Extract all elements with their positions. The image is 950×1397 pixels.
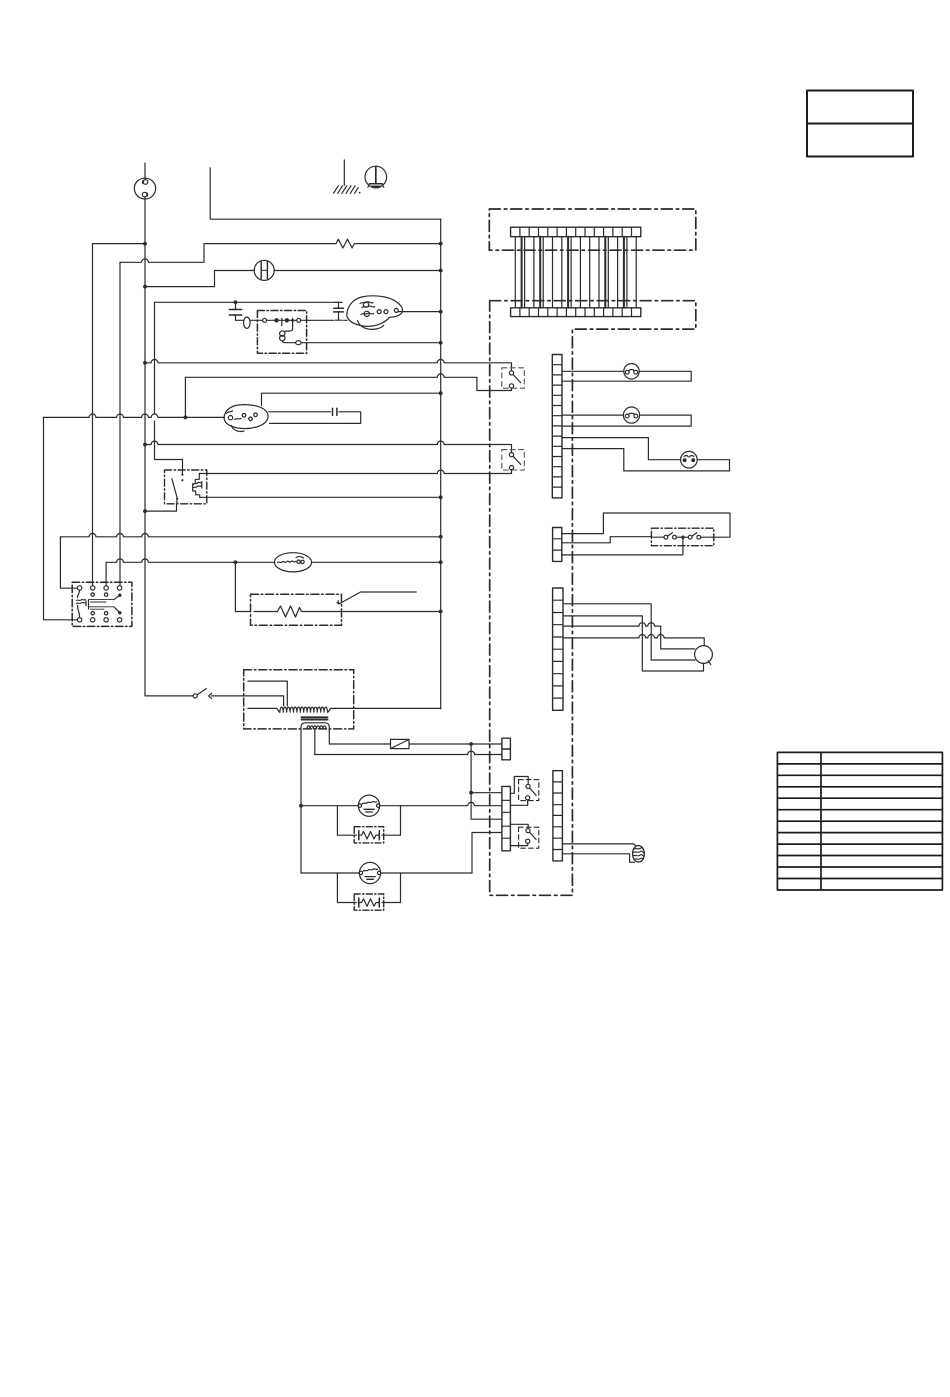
relay RY2 armature contact	[172, 470, 184, 504]
control PCB box outline (dash-dot)	[490, 301, 696, 896]
thermal protector oval	[274, 553, 311, 572]
wire protector drop x=235.4 to heater	[235, 562, 250, 611]
relay contact RY1	[502, 368, 525, 388]
transformer T1 secondary winding	[307, 726, 326, 729]
fan motor oval	[224, 405, 268, 432]
wire relay2 return y=473.5	[200, 470, 512, 474]
thermostat arrow over heater	[337, 592, 416, 604]
wire riser x=185.4 to relay1 return	[184, 377, 186, 417]
wire RY2 coil top exit stub	[198, 473, 200, 475]
wire transformer tap A lead	[248, 681, 287, 706]
wire transformer primary left lead	[248, 708, 280, 712]
wire secondary tap A drop	[300, 731, 302, 806]
wire secondary mid tap y=754.5 with hop	[315, 751, 502, 754]
transformer secondary tap leads	[301, 723, 329, 755]
relay RY coil	[280, 329, 296, 342]
node junction fan line x=185.4	[184, 416, 188, 420]
relay RY contact gap tick	[281, 318, 283, 325]
wire vertical link x=154.5	[155, 302, 183, 470]
relay contact RY2	[502, 450, 525, 470]
fuse thermal oval on filament line	[244, 317, 251, 328]
wire lower feed y=536.8 with hops	[60, 533, 440, 536]
wire sense link x=471.1	[470, 744, 472, 793]
wire motor2 resistor loop	[337, 873, 400, 903]
door interlock switch block (dash-dot)	[72, 582, 132, 626]
node junction HV cap1 top	[234, 300, 238, 304]
wire branch to left bus x=92.5	[93, 244, 146, 586]
node junction on live bus y=444.5	[143, 443, 147, 447]
wire RY2 coil bottom to right bus y=497.3	[200, 496, 441, 498]
ribbon cable top header	[511, 227, 641, 237]
wire damper relay return	[562, 537, 652, 543]
node junction protector line x=235.4	[234, 560, 238, 564]
wire door switch to transformer primary	[212, 696, 284, 706]
relay RY actuator arrow	[291, 317, 295, 329]
oven lamp L1	[624, 364, 639, 379]
wire buzzer top lead	[562, 844, 635, 846]
relay RY contact terminal	[263, 318, 267, 322]
wire fan motor top tap to bus y=393.2	[262, 393, 441, 405]
connector CN2 3pin strip	[553, 528, 562, 562]
turntable motor M1	[358, 795, 380, 816]
wire relay1 return y=377.3	[185, 374, 511, 391]
oven lamp L2	[623, 407, 639, 423]
wire stepper W1	[563, 604, 695, 660]
wire secondary right tap through fuse y=744	[329, 731, 502, 744]
ground earth symbol	[334, 160, 361, 194]
node junction tap A at motor1 line	[299, 804, 303, 808]
node junction fan top line at right bus	[439, 391, 443, 395]
transformer T1 primary winding	[280, 707, 328, 712]
relay RY moving contact	[274, 318, 278, 322]
wire main bus horizontal to door switch y=695.9	[145, 695, 193, 697]
node junction fuse line x=471.1	[469, 742, 473, 746]
damper relay contacts	[651, 533, 713, 540]
node junction protector line at right bus	[439, 560, 443, 564]
switch block terminals top row	[77, 586, 121, 590]
node junction lower feed at right bus	[439, 535, 443, 539]
node junction coil line at right bus	[439, 341, 443, 345]
transformer box (dash-dot)	[244, 670, 354, 729]
capacitor HV C1	[229, 302, 241, 320]
wire buzzer bottom lead	[562, 854, 634, 863]
wire x=43.5 left-most bus	[44, 417, 78, 619]
monitor switch SW1	[510, 777, 538, 806]
relay RY filament terminal	[297, 318, 301, 322]
wire fan motor feed y=417.4 with hops	[44, 414, 225, 417]
resistor motor1 damping	[354, 827, 384, 843]
wire live bus to RY2 box bottom	[145, 504, 177, 511]
power PCB box outline (dash-dot)	[489, 209, 696, 250]
damper relay box (dash-dot)	[651, 528, 713, 546]
wire main live bus (x=145) plug to door switch corner	[144, 197, 146, 696]
node junction on live bus y=511.1	[143, 509, 147, 513]
wire tap A continues to motor2 line	[300, 806, 302, 873]
wire right bus (x=440.7)	[440, 219, 442, 708]
power plug P1	[134, 178, 155, 199]
wire stepper W4 with hops	[563, 635, 704, 646]
wire left bus x=60.4	[60, 537, 77, 588]
capacitor HV C2	[334, 302, 344, 320]
wire power cord neutral stub	[210, 168, 441, 219]
buzzer BZ	[633, 846, 645, 862]
wire to connector pin y=792.7	[471, 792, 502, 794]
wire damper relay common	[562, 539, 683, 555]
parts table bottom right	[777, 752, 942, 890]
wire stepper W2	[563, 616, 704, 671]
HV relay box (dash-dot)	[257, 311, 306, 354]
relay RY fixed contact	[285, 318, 289, 322]
heater box (dash-dot)	[251, 594, 342, 625]
wire damper relay feed	[562, 513, 730, 537]
fan motor M2	[359, 862, 381, 883]
monitor switch SW2	[510, 824, 538, 848]
wire oven lamp2 loop	[562, 415, 691, 426]
wire turntable motor loop	[562, 438, 730, 471]
wire stepper W3 with hops	[563, 623, 695, 649]
wire relay coil to right bus y=342.7	[301, 342, 441, 344]
wire HV filament line y=320.3	[236, 319, 348, 321]
capacitor fan run C3 loop	[269, 408, 361, 423]
chassis ground circle symbol	[365, 166, 387, 188]
stepper fan motor M4	[695, 646, 713, 665]
wire HV line y=302.3	[155, 301, 339, 303]
wire resistor feed line y=262.3 with hop over main bus	[120, 244, 204, 263]
relay coil box RY2 (dash-dot)	[165, 470, 207, 504]
connector CN3 10pin strip	[553, 588, 563, 710]
connector CN-A 2pin	[502, 738, 511, 760]
wire interlock line to right bus	[274, 270, 441, 272]
fuse F1	[391, 739, 410, 748]
wire branch bus x=120 from y=262.3	[119, 262, 121, 585]
node junction interlock line at right bus	[439, 269, 443, 273]
node junction heater line at right bus	[439, 610, 443, 614]
node junction resistor line at right bus	[439, 242, 443, 246]
magnetron	[347, 296, 403, 330]
connector CN-B 5pin	[502, 786, 511, 850]
wire heater to right bus y=611.5	[342, 611, 441, 613]
relay RY coil terminal	[296, 341, 301, 345]
wire motor2 line y=873	[301, 833, 502, 874]
switch block coil	[77, 590, 89, 618]
relay RY2 coil	[193, 474, 202, 498]
resistor R heater line	[204, 239, 441, 248]
wire relay2 feed y=444.5 with hops	[145, 441, 512, 452]
transformer core bars	[302, 717, 328, 719]
thermal cutout circle component	[254, 260, 274, 280]
resistor motor2 damping	[354, 894, 384, 910]
wire motor1 resistor loop	[337, 806, 400, 836]
wire link continues to pin y=819.2	[471, 793, 502, 820]
wire power cord live lead-in	[144, 163, 146, 179]
node junction coil bottom at right bus	[439, 495, 443, 499]
title block top right	[807, 91, 913, 157]
ribbon cable heavier strands	[522, 237, 624, 308]
resistor heater element	[254, 606, 342, 617]
node junction on live bus y=362.8	[143, 361, 147, 365]
switch block terminals bottom row	[77, 618, 121, 622]
wire x=106.1 drop to switch block	[105, 562, 107, 585]
node junction on live bus y=243.6	[143, 242, 147, 246]
wire oven lamp1 loop	[562, 371, 691, 381]
wire transformer primary right lead to bus	[328, 708, 441, 712]
connector CN4 8pin strip	[553, 771, 563, 861]
switch block inner contacts	[89, 593, 122, 615]
door switch	[193, 689, 212, 699]
node junction x=471.1 y=792.7	[469, 791, 473, 795]
wire motor1 line y=805.7 with hop	[301, 802, 502, 805]
turntable motor M3	[681, 451, 698, 468]
wire relay1 feed y=362.8 with hops	[145, 359, 512, 370]
wire from live bus up-step to interlock line y=270.5	[145, 271, 255, 287]
ribbon cable wires	[515, 237, 636, 308]
connector CN1 14pin strip	[552, 355, 562, 498]
ribbon cable bottom header	[511, 308, 641, 317]
node junction magnetron line at right bus	[439, 310, 443, 314]
wire protector line y=562.3 with hops	[106, 559, 441, 562]
wire magnetron anode to right bus y=311.6	[398, 311, 440, 313]
node junction on live bus y=286.6	[143, 285, 147, 289]
